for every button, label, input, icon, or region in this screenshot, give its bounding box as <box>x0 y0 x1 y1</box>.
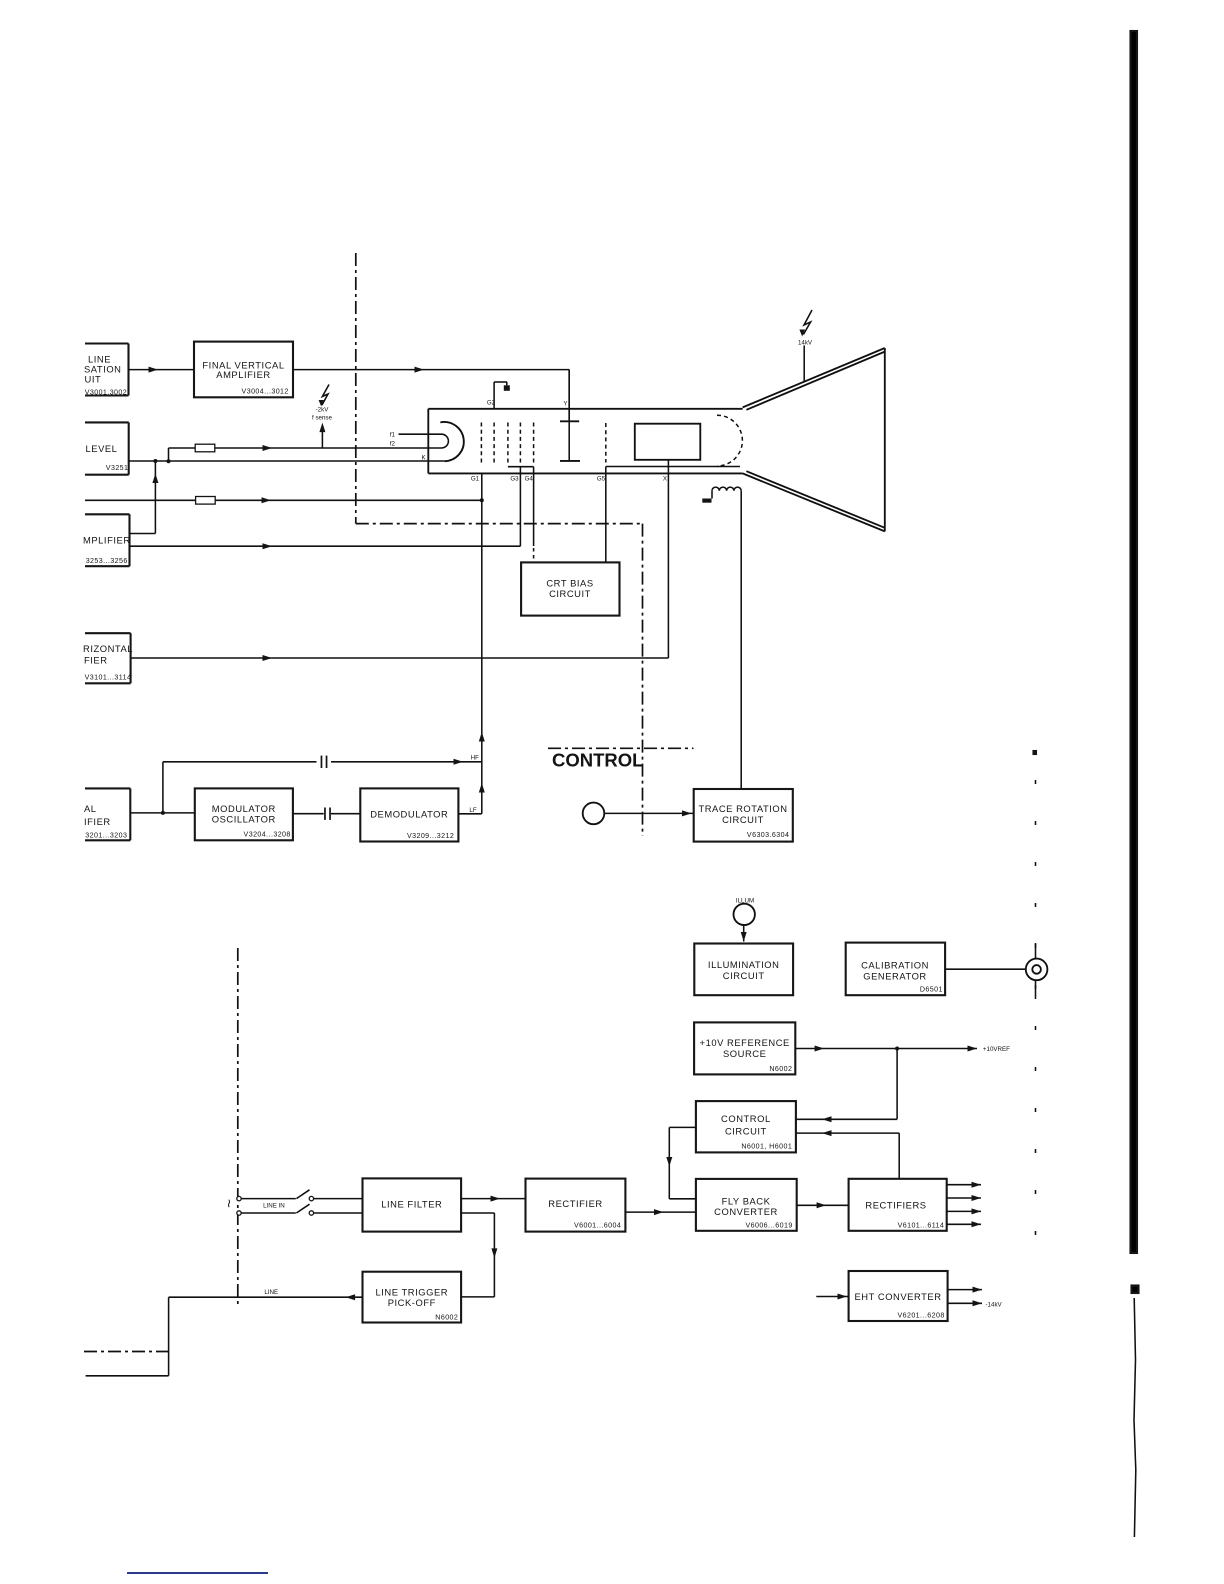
block demodulator V3209-3212 <box>360 788 458 841</box>
lightning 14kV EHT <box>798 310 813 346</box>
svg-text:3253...3256: 3253...3256 <box>86 557 128 565</box>
chassis dash-dot vertical (mid) <box>642 524 644 836</box>
svg-text:CIRCUIT: CIRCUIT <box>722 814 764 825</box>
label LF <box>469 807 476 814</box>
contact circle bottom <box>237 1211 241 1215</box>
svg-text:G4: G4 <box>525 475 534 482</box>
svg-text:MODULATOR: MODULATOR <box>212 803 276 814</box>
svg-text:N6001, H6001: N6001, H6001 <box>741 1143 792 1151</box>
wire LINE output <box>86 1294 363 1376</box>
wire EHT output 2 -14kV <box>948 1300 982 1306</box>
block CRT bias circuit <box>521 562 619 615</box>
svg-text:EHT CONVERTER: EHT CONVERTER <box>854 1291 941 1302</box>
label G4 <box>525 475 534 482</box>
cathode K cylinder <box>440 422 464 461</box>
svg-text:OSCILLATOR: OSCILLATOR <box>212 814 276 825</box>
svg-text:IFIER: IFIER <box>84 816 111 827</box>
wire coil to trace rotation circuit <box>740 491 742 789</box>
page edge thin line (bottom right) <box>1134 1298 1136 1537</box>
label HF <box>471 755 479 762</box>
svg-text:V6101...6114: V6101...6114 <box>898 1222 945 1230</box>
svg-text:ILLUMINATION: ILLUMINATION <box>708 959 780 970</box>
label K <box>422 455 427 462</box>
svg-text:AL: AL <box>84 803 97 814</box>
label G3 <box>510 475 519 482</box>
svg-text:CONTROL: CONTROL <box>721 1113 771 1124</box>
svg-text:MPLIFIER: MPLIFIER <box>83 535 131 546</box>
wire +10VREF output <box>795 1046 977 1052</box>
label LINE IN <box>263 1202 285 1209</box>
svg-text:CIRCUIT: CIRCUIT <box>549 588 591 599</box>
node junction dot +10VREF <box>895 1047 899 1051</box>
page edge mark square <box>1132 1286 1139 1294</box>
svg-text:14kV: 14kV <box>798 339 813 346</box>
svg-text:DEMODULATOR: DEMODULATOR <box>370 809 448 820</box>
switch top <box>241 1190 362 1201</box>
CRT funnel <box>743 348 885 531</box>
svg-text:RIZONTAL: RIZONTAL <box>83 643 133 654</box>
svg-text:V3251: V3251 <box>106 464 129 472</box>
svg-text:TRACE ROTATION: TRACE ROTATION <box>698 803 787 814</box>
svg-text:V3001.3002: V3001.3002 <box>85 388 127 396</box>
block V3101 (clipped at page edge) <box>83 633 133 683</box>
block illumination circuit <box>694 944 793 996</box>
svg-text:V3101...3114: V3101...3114 <box>85 674 132 682</box>
block rectifiers V6101-6114 <box>849 1179 947 1231</box>
wire fly back to rectifiers <box>797 1202 849 1208</box>
footer blue line <box>127 1572 268 1574</box>
wire K cathode (level to CRT) <box>129 460 445 462</box>
svg-text:G5: G5 <box>597 475 606 482</box>
CAL output connector <box>1026 959 1048 981</box>
wire focus (V3253 to G3/G4) <box>130 467 521 550</box>
front panel dash-dot vertical (right) <box>1035 780 1037 1237</box>
label Y <box>563 401 567 408</box>
CRT neck envelope <box>428 409 742 474</box>
svg-text:CALIBRATION: CALIBRATION <box>861 960 929 971</box>
grid G4 dashed <box>519 423 521 463</box>
svg-text:FIER: FIER <box>84 655 108 666</box>
label G5 <box>597 475 606 482</box>
block V3253 (clipped at page edge) <box>83 514 131 566</box>
capacitor modulator-demodulator <box>324 808 331 820</box>
lightning -2kV f sense <box>312 385 333 449</box>
heater hairpin f1 f2 <box>399 434 449 448</box>
chassis dash-dot horizontal <box>356 523 643 525</box>
svg-text:Y: Y <box>563 401 567 408</box>
svg-text:3201...3203: 3201...3203 <box>85 832 127 840</box>
grid G3 dashed <box>507 423 509 463</box>
wire X deflection (horizontal amp to X plates) <box>131 460 669 661</box>
svg-text:V6303.6304: V6303.6304 <box>747 831 789 839</box>
node junction dot wire3/G1 <box>480 498 484 502</box>
resistor on f2 wire <box>195 444 215 452</box>
bottom-left dash-dot horizontal <box>84 1351 170 1353</box>
wire V3001 to final vertical amplifier <box>129 367 195 373</box>
block fly back converter V6006-6019 <box>696 1179 797 1231</box>
block V3001 (clipped at page edge) <box>84 344 129 397</box>
page binding bar (right edge) <box>1131 31 1138 1253</box>
svg-text:V3209...3212: V3209...3212 <box>407 832 454 840</box>
block line filter <box>363 1178 462 1231</box>
grid G5 dashed <box>605 423 607 463</box>
wire rectifiers to control circuit <box>796 1130 899 1179</box>
wire G4b to CRT bias circuit <box>533 467 535 563</box>
wire G5 collector line <box>606 466 740 468</box>
wire EHT input <box>816 1294 848 1300</box>
svg-text:GENERATOR: GENERATOR <box>863 971 926 982</box>
block calibration generator D6501 <box>846 943 945 996</box>
block control circuit N6001 H6001 <box>696 1101 796 1152</box>
svg-text:LF: LF <box>469 807 476 814</box>
label G2 <box>487 400 496 407</box>
knob trace rotation <box>583 803 605 825</box>
svg-text:V6201...6208: V6201...6208 <box>897 1312 944 1320</box>
block V3251 (clipped at page edge) <box>85 422 129 474</box>
svg-text:f1: f1 <box>390 432 396 439</box>
grid G4b dashed <box>533 423 535 463</box>
label f1 <box>390 432 396 439</box>
wire +10VREF to control circuit <box>796 1049 897 1123</box>
wire modulator to demodulator <box>293 813 360 815</box>
label -14kV <box>986 1301 1003 1308</box>
svg-text:-2kV: -2kV <box>316 407 330 414</box>
wire rectifiers output 4 <box>947 1221 981 1227</box>
wire final vertical amplifier to Y plates <box>293 367 569 422</box>
chassis dash-dot vertical (upper left) <box>355 253 357 524</box>
block rectifier V6001-6004 <box>526 1179 626 1232</box>
block V3201 (clipped at page edge) <box>84 788 130 840</box>
node junction dot HF branch <box>161 811 165 815</box>
svg-text:LINE IN: LINE IN <box>263 1202 285 1209</box>
svg-text:LINE TRIGGER: LINE TRIGGER <box>376 1287 449 1298</box>
svg-text:N6002: N6002 <box>435 1314 458 1322</box>
wire line filter to rectifier <box>461 1196 525 1202</box>
G2 terminal stub <box>494 382 510 409</box>
svg-text:V6006...6019: V6006...6019 <box>745 1222 792 1230</box>
svg-text:f2: f2 <box>390 441 396 448</box>
label X <box>663 475 667 482</box>
label G1 <box>471 475 480 482</box>
label line sine <box>220 1199 237 1208</box>
block final vertical amplifier V3004-3012 <box>194 342 293 398</box>
wire line filter to line trigger pick-off <box>461 1213 497 1297</box>
wire rectifier to fly back converter <box>625 1209 696 1215</box>
speck <box>1034 751 1037 754</box>
svg-text:f sense: f sense <box>312 414 333 421</box>
grid tie bar G3-G4b <box>508 466 534 468</box>
ground (coil) <box>702 499 711 503</box>
svg-text:SOURCE: SOURCE <box>723 1048 766 1059</box>
svg-text:LEVEL: LEVEL <box>86 443 118 454</box>
wire rectifiers output 1 <box>947 1182 981 1188</box>
svg-text:CONTROL: CONTROL <box>552 750 643 771</box>
wire knob to trace rotation circuit <box>604 810 693 816</box>
node junction dot 1 <box>153 459 157 463</box>
CRT gun shield dashed arc <box>717 415 742 466</box>
wire V3253 to cathode junction <box>130 461 159 534</box>
svg-text:V3004...3012: V3004...3012 <box>242 388 289 396</box>
svg-text:RECTIFIERS: RECTIFIERS <box>865 1200 926 1211</box>
svg-text:X: X <box>663 475 667 482</box>
svg-text:CIRCUIT: CIRCUIT <box>723 970 765 981</box>
svg-text:RECTIFIER: RECTIFIER <box>548 1198 602 1209</box>
svg-text:G1: G1 <box>471 475 480 482</box>
wire EHT output 1 <box>948 1287 982 1293</box>
grid G1 dashed <box>480 423 482 463</box>
svg-text:G3: G3 <box>510 475 519 482</box>
grid G2 dashed <box>493 423 495 463</box>
resistor on wire3 <box>196 497 216 505</box>
svg-text:HF: HF <box>471 755 479 762</box>
contact circle top <box>237 1196 241 1200</box>
svg-text:+10V REFERENCE: +10V REFERENCE <box>700 1037 790 1048</box>
wire control circuit to fly back converter <box>666 1127 696 1198</box>
svg-text:CONVERTER: CONVERTER <box>714 1206 778 1217</box>
label CONTROL <box>552 750 643 771</box>
svg-text:AMPLIFIER: AMPLIFIER <box>216 369 270 380</box>
control panel dash-dot horizontal <box>548 747 694 749</box>
trace rotation coil <box>712 487 741 498</box>
wire ILLUM knob to illumination circuit <box>741 925 747 941</box>
svg-text:UIT: UIT <box>85 373 102 384</box>
svg-text:V3204...3208: V3204...3208 <box>244 831 291 839</box>
capacitor on HF wire <box>321 756 328 768</box>
svg-text:N6002: N6002 <box>769 1065 792 1073</box>
svg-text:~: ~ <box>220 1199 237 1208</box>
wire rectifiers output 3 <box>947 1208 981 1214</box>
block trace rotation circuit V6303-6304 <box>694 789 793 842</box>
svg-text:D6501: D6501 <box>920 986 943 994</box>
svg-text:LINE: LINE <box>264 1289 278 1296</box>
label f2 <box>390 441 396 448</box>
node junction dot 2 <box>167 459 171 463</box>
wire 14kV to funnel <box>803 345 805 382</box>
svg-text:-14kV: -14kV <box>986 1301 1003 1308</box>
block line trigger pick-off N6002 <box>363 1272 462 1323</box>
X deflection plates <box>635 424 701 460</box>
wire G5 to CRT bias circuit <box>605 467 607 563</box>
svg-text:CRT BIAS: CRT BIAS <box>546 578 593 589</box>
Y deflection plates <box>560 370 580 461</box>
wire LF (demodulator to G1 line) <box>458 473 484 813</box>
switch bottom <box>241 1204 362 1215</box>
wire rectifiers output 2 <box>947 1195 981 1201</box>
block modulator oscillator V3204-3208 <box>195 788 293 840</box>
label LINE <box>264 1289 278 1296</box>
svg-text:PICK-OFF: PICK-OFF <box>388 1297 436 1308</box>
svg-text:+10VREF: +10VREF <box>983 1046 1010 1053</box>
svg-text:CIRCUIT: CIRCUIT <box>725 1126 767 1137</box>
svg-text:FLY BACK: FLY BACK <box>722 1196 771 1207</box>
block EHT converter V6201-6208 <box>849 1271 948 1321</box>
line-in dash-dot vertical <box>237 948 239 1308</box>
label +10VREF <box>983 1046 1010 1053</box>
wire calibration generator to CAL connector <box>945 968 1026 970</box>
svg-text:LINE FILTER: LINE FILTER <box>381 1199 442 1210</box>
wire HF (cap coupled to G1 line) <box>163 759 482 813</box>
knob ILLUM <box>734 904 755 925</box>
svg-text:G2: G2 <box>487 400 496 407</box>
wire f2 heater branch <box>169 445 435 461</box>
label ILLUM <box>736 898 754 905</box>
wire3 Z-input (from page edge to G1 line) <box>85 497 482 503</box>
wire V3201 to modulator oscillator <box>130 812 195 814</box>
block +10V reference source N6002 <box>694 1022 795 1074</box>
svg-text:V6001...6004: V6001...6004 <box>574 1222 621 1230</box>
